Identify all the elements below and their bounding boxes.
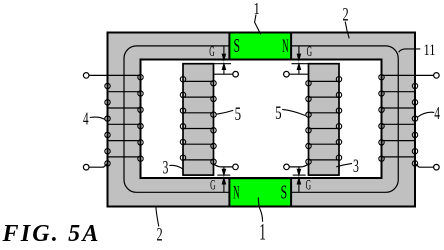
svg-text:11: 11 bbox=[423, 42, 435, 60]
terminal inner top-right bbox=[284, 71, 290, 77]
gap G bottom-left arrows bbox=[217, 167, 230, 193]
svg-text:G: G bbox=[307, 45, 312, 60]
terminal top-left bbox=[83, 73, 89, 79]
leader 3 left bbox=[169, 165, 182, 169]
coil 5 left bottom lead wire bbox=[214, 164, 233, 167]
coil 5 left top lead wire bbox=[214, 73, 234, 75]
svg-text:FIG. 5A: FIG. 5A bbox=[2, 221, 101, 245]
svg-text:G: G bbox=[210, 178, 215, 193]
leader 1 bottom bbox=[258, 198, 262, 222]
svg-text:5: 5 bbox=[275, 103, 281, 124]
svg-text:S: S bbox=[281, 183, 288, 204]
coil 5 left hooks right edge bbox=[211, 81, 216, 165]
leader 5 right bbox=[282, 109, 305, 115]
coil 4 left bottom lead wire bbox=[89, 164, 108, 168]
terminal inner top-left bbox=[233, 71, 239, 77]
svg-text:2: 2 bbox=[157, 225, 163, 245]
terminal bottom-right bbox=[434, 164, 440, 170]
svg-text:1: 1 bbox=[254, 0, 260, 18]
svg-text:3: 3 bbox=[162, 158, 168, 178]
svg-text:4: 4 bbox=[83, 110, 89, 129]
coil 5 right hooks left edge bbox=[306, 81, 311, 165]
svg-text:G: G bbox=[209, 45, 214, 60]
terminal inner bottom-right bbox=[284, 164, 290, 170]
leader 4 left bbox=[90, 117, 105, 120]
svg-text:N: N bbox=[233, 182, 240, 204]
pole piece 3 right bbox=[309, 64, 340, 175]
svg-text:N: N bbox=[282, 35, 289, 57]
leader 2 top bbox=[345, 22, 349, 39]
svg-text:5: 5 bbox=[235, 103, 241, 124]
core frame 2 bbox=[108, 33, 416, 207]
gap G bottom-right arrows bbox=[293, 167, 306, 193]
coil 5 right winding lines bbox=[309, 81, 340, 159]
coil 4 left hooks outer edge bbox=[105, 83, 110, 166]
coil 5 right top lead wire bbox=[289, 73, 309, 75]
flux centerline 11 bbox=[124, 46, 398, 192]
coil 4 right hooks outer edge bbox=[412, 83, 417, 166]
terminal top-right bbox=[434, 73, 440, 79]
pole piece 3 left bbox=[183, 64, 214, 175]
leader 1 top bbox=[255, 15, 261, 35]
coil 5 right hooks right edge bbox=[336, 77, 341, 161]
coil 4 left hooks inner edge bbox=[138, 75, 143, 162]
leader 2 bottom bbox=[156, 206, 159, 227]
coil 4 left top lead wire bbox=[89, 74, 141, 76]
terminal bottom-left bbox=[83, 164, 89, 170]
leader 5 left bbox=[217, 110, 234, 114]
coil 5 left winding lines bbox=[183, 81, 214, 159]
terminal inner bottom-left bbox=[233, 164, 239, 170]
magnet 1 bottom bbox=[229, 178, 291, 206]
svg-text:4: 4 bbox=[434, 104, 440, 123]
coil 4 right bottom lead wire bbox=[415, 164, 434, 168]
leader 4 right bbox=[417, 112, 435, 117]
leader 11 bbox=[399, 49, 421, 52]
gap G top-left arrows bbox=[214, 46, 232, 74]
svg-text:3: 3 bbox=[353, 156, 359, 176]
coil 5 right bottom lead wire bbox=[289, 164, 308, 167]
coil 4 right top lead wire bbox=[382, 74, 434, 76]
gap G top-right arrows bbox=[292, 46, 309, 74]
coil 4 right winding lines bbox=[382, 92, 416, 157]
leader 3 right bbox=[336, 163, 352, 167]
svg-text:S: S bbox=[233, 36, 240, 57]
coil 4 right hooks inner edge bbox=[379, 75, 384, 162]
coil 4 left winding lines bbox=[108, 92, 141, 157]
svg-text:1: 1 bbox=[259, 220, 266, 245]
svg-text:G: G bbox=[306, 178, 311, 193]
magnet 1 top bbox=[229, 33, 291, 60]
coil 5 left hooks left edge bbox=[180, 77, 185, 161]
